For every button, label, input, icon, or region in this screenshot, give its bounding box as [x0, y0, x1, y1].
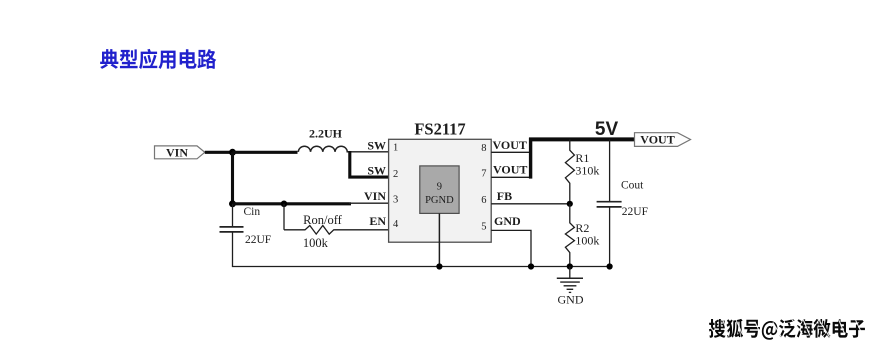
- svg-text:Cout: Cout: [621, 180, 644, 192]
- svg-text:SW: SW: [367, 163, 386, 177]
- svg-text:6: 6: [481, 195, 486, 206]
- svg-text:FS2117: FS2117: [414, 120, 465, 139]
- svg-text:VOUT: VOUT: [640, 133, 674, 147]
- pin labels SW SW VIN EN: [364, 138, 386, 228]
- net label 5V: [595, 119, 619, 140]
- svg-text:Cin: Cin: [244, 206, 261, 218]
- wire VIN flag to node A: [205, 151, 233, 154]
- resistor R2 100k: [565, 204, 599, 267]
- svg-text:FB: FB: [497, 189, 512, 203]
- svg-text:VIN: VIN: [166, 146, 188, 160]
- svg-text:VIN: VIN: [364, 189, 386, 203]
- svg-text:7: 7: [481, 169, 486, 180]
- title 典型应用电路: [100, 49, 216, 69]
- node B junction (VIN to Cin / pin 3): [229, 200, 236, 207]
- watermark 搜狐号@泛海微电子: [709, 319, 865, 340]
- node C junction (Ron/off tap): [281, 201, 288, 208]
- resistor Ron/off 100k: [284, 213, 343, 250]
- port flag VIN: [155, 146, 205, 160]
- pin labels VOUT VOUT FB GND: [493, 138, 528, 228]
- node A junction (VIN net): [229, 149, 236, 156]
- svg-text:VOUT: VOUT: [493, 162, 527, 176]
- op IC U1 FS2117 body: [389, 120, 492, 243]
- svg-text:100k: 100k: [575, 233, 599, 247]
- wire node A to inductor L1: [233, 151, 298, 154]
- node FB junction: [567, 201, 573, 207]
- wire node B to pin 3 VIN: [233, 202, 390, 206]
- node junction PGND on bottom rail: [436, 263, 442, 269]
- capacitor Cout 22UF: [597, 139, 648, 266]
- svg-text:GND: GND: [558, 293, 584, 307]
- wire node A down to node B: [231, 152, 234, 204]
- wire pin 6 FB to divider: [491, 203, 570, 205]
- svg-text:310k: 310k: [575, 163, 599, 177]
- svg-text:5V: 5V: [595, 119, 619, 140]
- node junction GND pin on bottom rail: [528, 263, 534, 269]
- svg-text:5: 5: [481, 222, 486, 233]
- svg-text:100k: 100k: [303, 236, 329, 250]
- svg-text:8: 8: [481, 143, 486, 154]
- wire SW branch to pin 2 SW: [350, 151, 389, 177]
- svg-text:EN: EN: [369, 214, 386, 228]
- wire pin 7 VOUT to bus: [491, 176, 530, 178]
- svg-text:GND: GND: [494, 214, 521, 228]
- svg-text:2.2UH: 2.2UH: [309, 126, 343, 140]
- wire inductor to pin 1 SW: [347, 151, 390, 153]
- wire node C down to resistor Ron/off: [283, 204, 285, 230]
- svg-text:PGND: PGND: [425, 195, 454, 206]
- resistor R1 310k: [565, 139, 599, 203]
- svg-text:SW: SW: [367, 138, 386, 152]
- svg-text:VOUT: VOUT: [493, 138, 527, 152]
- pin numbers 1 2 3 4: [393, 143, 399, 230]
- capacitor Cin 22UF: [220, 204, 272, 267]
- pin numbers 8 7 6 5: [481, 143, 486, 233]
- wire bottom ground rail: [232, 266, 610, 268]
- svg-text:4: 4: [393, 219, 399, 230]
- svg-text:3: 3: [393, 194, 398, 205]
- port flag VOUT: [635, 133, 691, 147]
- wire pin 5 GND to bottom rail: [491, 230, 531, 266]
- inductor L1 2.2UH: [298, 126, 347, 152]
- svg-text:Ron/off: Ron/off: [303, 213, 342, 227]
- wire Ron/off to pin 4 EN: [336, 229, 389, 231]
- svg-text:22UF: 22UF: [622, 206, 648, 218]
- svg-text:1: 1: [393, 143, 398, 154]
- pad 9 PGND (exposed pad): [420, 166, 459, 214]
- node junction R2/ground on bottom rail: [567, 263, 573, 269]
- ground GND symbol: [557, 267, 584, 307]
- wire PGND pad to bottom rail: [438, 213, 440, 266]
- wire pin 8 VOUT to bus: [491, 151, 530, 153]
- node junction Cout on bottom rail: [607, 263, 613, 269]
- wire 5V top rail: [529, 137, 635, 141]
- svg-text:9: 9: [437, 181, 442, 192]
- svg-text:2: 2: [393, 169, 398, 180]
- wire VOUT bus vertical: [529, 138, 532, 179]
- svg-text:22UF: 22UF: [245, 234, 271, 246]
